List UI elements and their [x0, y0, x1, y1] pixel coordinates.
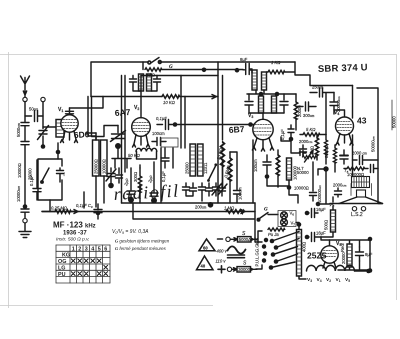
svg-text:43: 43 — [357, 116, 367, 126]
svg-text:400 v: 400 v — [217, 249, 228, 254]
band table — [56, 245, 110, 283]
warning triangle 1 — [199, 239, 215, 251]
capacitor 50cm — [25, 107, 43, 122]
switch G on bus — [148, 58, 173, 71]
antenna terminal A2 — [41, 97, 45, 101]
svg-text:5000cm: 5000cm — [16, 123, 21, 137]
switch S to lamps — [257, 208, 278, 222]
svg-text:P.U.: P.U. — [255, 259, 260, 267]
IF2 capacitor right — [249, 94, 288, 113]
IF2 capacitor left — [245, 94, 253, 113]
smoothing choke — [324, 205, 336, 233]
dial lamps box — [278, 211, 296, 227]
paper edge lines — [0, 52, 397, 308]
resistor 0.25Meg — [42, 206, 78, 214]
padder capacitor f — [57, 168, 64, 182]
screen sub-bus — [162, 69, 243, 71]
svg-text:400Ω: 400Ω — [302, 242, 307, 252]
svg-text:50 KΩ: 50 KΩ — [128, 153, 141, 158]
svg-text:10000Ω: 10000Ω — [294, 186, 309, 191]
capacitor 10000cm V4 cathode — [333, 183, 347, 198]
svg-text:G.G.: G.G. — [255, 243, 260, 252]
node dot — [41, 144, 46, 149]
anode cap 0.1uF — [280, 125, 294, 141]
IF transformer T2 primary — [252, 70, 257, 90]
capacitor 2000cm — [299, 139, 313, 156]
svg-text:110 v: 110 v — [216, 259, 227, 264]
resistor 30ohm — [268, 228, 285, 237]
junction dot — [202, 68, 207, 73]
capacitor 250cm — [310, 85, 334, 98]
IF2 coil left — [259, 96, 264, 113]
svg-text:25000Ω: 25000Ω — [93, 159, 98, 174]
wire to ground symbol — [24, 223, 26, 231]
svg-text:5: 5 — [98, 246, 101, 252]
tube V3 6B7 — [252, 113, 273, 151]
bottom trimmer row 2 — [199, 183, 213, 201]
svg-text:radiofil: radiofil — [113, 181, 180, 204]
svg-text:30000: 30000 — [238, 267, 250, 272]
svg-text:2000 cm: 2000 cm — [352, 151, 367, 156]
resistor 1 Meg — [224, 206, 245, 214]
label 200cm — [195, 202, 213, 210]
trimmer capacitor antenna — [38, 102, 49, 145]
speaker cone — [339, 197, 383, 204]
svg-text:SBR 374 U: SBR 374 U — [318, 62, 368, 75]
svg-text:10 KΩ: 10 KΩ — [163, 100, 176, 105]
IF1 primary coil — [139, 74, 144, 91]
svg-text:8µF: 8µF — [240, 57, 248, 62]
svg-text:5 KΩ: 5 KΩ — [306, 127, 316, 132]
svg-text:6: 6 — [104, 246, 107, 252]
svg-text:8µF: 8µF — [365, 252, 373, 257]
padder line 0.1uF — [161, 148, 166, 203]
osc resistor 10k vertical — [216, 142, 225, 188]
bus AVC line — [42, 211, 255, 213]
svg-text:Redr: Redr — [340, 242, 345, 252]
wire antenna down — [24, 102, 26, 141]
capacitor 20000cm vertical — [330, 93, 341, 115]
resistor 1k ohm — [267, 60, 353, 86]
svg-text:300Ω: 300Ω — [133, 172, 138, 182]
capacitor 5000cm — [16, 123, 29, 145]
svg-text:10000Ω: 10000Ω — [101, 159, 106, 174]
AVC feed wires — [325, 93, 327, 135]
V4 grid resistor — [316, 135, 330, 207]
series capacitor 2uF — [29, 160, 41, 200]
IF2 tuned circuits top line — [247, 90, 296, 94]
svg-text:100cm: 100cm — [152, 131, 165, 136]
top HT bus — [91, 62, 295, 97]
resistor 3k ohm — [143, 62, 162, 78]
lamp V6 — [281, 212, 288, 219]
electrolytic 16uF b — [305, 231, 326, 242]
HT vertical right — [352, 86, 354, 177]
resistor 10k ohm — [162, 95, 180, 105]
svg-text:4: 4 — [91, 246, 94, 252]
svg-text:16µF: 16µF — [316, 231, 326, 236]
AVC line vertical — [230, 152, 243, 203]
bus gnd line — [122, 202, 256, 204]
junction dot — [235, 68, 240, 73]
svg-text:L.S.2: L.S.2 — [351, 212, 363, 218]
svg-text:100000: 100000 — [293, 165, 298, 180]
svg-text:10000Ω: 10000Ω — [17, 163, 22, 178]
trimmer pair — [106, 168, 123, 188]
switch contact — [42, 168, 49, 181]
IF1 tuning capacitor right — [152, 76, 161, 92]
diode load 100cm — [253, 155, 271, 179]
inner line below switch — [141, 75, 218, 77]
svg-text:1 KΩ: 1 KΩ — [271, 60, 281, 65]
electrolytic 2uF b — [147, 162, 158, 204]
resistor 0.25M vertical — [276, 150, 279, 187]
grid capacitor V2 with trimmer arrow — [111, 126, 126, 150]
node dot antenna-gnd — [23, 204, 28, 209]
grid stopper wires — [281, 137, 291, 141]
svg-text:12311: 12311 — [203, 162, 208, 174]
IF2 coil right — [272, 96, 277, 113]
svg-text:G gesloten tijdens metingen: G gesloten tijdens metingen — [115, 239, 170, 244]
power wiring — [321, 237, 370, 270]
speaker field wires — [321, 197, 333, 237]
svg-text:Instr. 500 Ω p.v.: Instr. 500 Ω p.v. — [56, 237, 90, 243]
wave switch box left — [38, 159, 66, 200]
IF2 junction dots — [259, 92, 264, 97]
svg-text:V0/V9 = 9V. 0,3A: V0/V9 = 9V. 0,3A — [112, 229, 149, 235]
svg-text:100cm: 100cm — [253, 159, 258, 172]
svg-text:100000cm: 100000cm — [317, 185, 322, 203]
coupling capacitor 0.1uF — [156, 116, 177, 130]
wire box to bus — [49, 200, 51, 212]
ground — [19, 232, 31, 238]
mains terminal minus — [218, 237, 231, 241]
fuse S top — [231, 231, 258, 242]
V1 top cap wire to screen bus — [70, 97, 104, 109]
svg-text:0.1µF: 0.1µF — [29, 175, 34, 186]
rotary wave switch — [255, 232, 300, 270]
svg-text:G fermé pendant mésures: G fermé pendant mésures — [115, 246, 167, 251]
tube V4 43 — [334, 110, 354, 145]
svg-text:50cm: 50cm — [29, 107, 38, 112]
svg-text:16µF: 16µF — [316, 207, 326, 212]
svg-text:5000Δ: 5000Δ — [239, 237, 251, 242]
svg-text:L.G.: L.G. — [255, 251, 260, 259]
capacitor 300cm — [296, 102, 316, 118]
cathode bypass electrolytic — [340, 150, 348, 164]
resistor 0.5 Meg — [223, 152, 232, 203]
outer right vertical — [357, 88, 383, 204]
padding caps pair — [161, 138, 178, 168]
speaker base feed — [330, 203, 339, 205]
resistor 1 Meg det — [310, 135, 319, 161]
node 10000 — [267, 179, 309, 191]
cathode resistor 300ohm — [133, 165, 142, 203]
antenna terminal A1 — [23, 97, 27, 101]
node dot V3 grid — [248, 122, 253, 127]
svg-text:50000cm: 50000cm — [371, 136, 376, 152]
electrolytic 8uF — [240, 57, 252, 75]
svg-text:25000: 25000 — [185, 162, 190, 174]
svg-text:KG: KG — [62, 253, 70, 259]
svg-text:LG: LG — [58, 266, 66, 272]
AC source symbol — [228, 246, 246, 257]
volume pot 50000 — [291, 141, 316, 175]
svg-text:20000: 20000 — [341, 252, 346, 264]
wire from fuses to switch — [256, 231, 262, 269]
tone resistor 100000 — [344, 165, 378, 178]
warning triangle 2 — [197, 256, 214, 270]
bypass capacitor 0.1uF C — [76, 192, 102, 219]
IF1 secondary coil — [147, 74, 152, 91]
tube V5 25Z5 — [321, 240, 338, 268]
AF line to 6B7 — [177, 124, 253, 126]
svg-text:6A7: 6A7 — [114, 107, 131, 118]
svg-text:100cm: 100cm — [238, 187, 243, 200]
screen resistor 20k — [294, 94, 302, 130]
tube V1 6D6 — [61, 108, 79, 143]
lamp V7 — [281, 219, 288, 226]
IF1 tuning capacitor left — [130, 76, 142, 92]
bottom trimmer row 1 — [183, 183, 197, 196]
oscillator coil bar 2 — [198, 144, 208, 176]
fuse S bottom — [232, 261, 257, 273]
screen feed wires to cathode bars — [88, 97, 118, 141]
capacitor 10000cm — [16, 186, 29, 213]
ballast resistor 400ohm — [296, 222, 307, 279]
grid coil L1 — [56, 120, 64, 138]
capacitor 100cm — [152, 131, 166, 146]
antenna — [21, 76, 30, 97]
svg-text:2: 2 — [78, 246, 81, 252]
wire grid V1 — [43, 126, 56, 128]
long vertical pair mid — [218, 62, 223, 188]
svg-text:60: 60 — [203, 246, 208, 251]
vertical pair to osc — [181, 76, 185, 149]
voice coil bracket — [351, 184, 372, 198]
screen bus with 10k resistor — [91, 96, 162, 98]
bottom trimmer row 3 with arrows — [212, 183, 227, 196]
IF transformer T2 secondary — [249, 70, 266, 90]
svg-text:40: 40 — [201, 264, 206, 269]
output transformer — [352, 177, 370, 188]
electrolytic 2uF — [123, 168, 135, 203]
earth terminal — [23, 219, 27, 223]
det bottom wire — [253, 140, 298, 203]
svg-text:1936 -37: 1936 -37 — [63, 231, 87, 237]
tube V2 6A7 — [132, 76, 151, 148]
electrolytic 8uF out — [356, 247, 373, 261]
trimmer hang line — [112, 148, 131, 168]
oscillator coupling coil 50000 — [128, 148, 157, 159]
filter resistor 20000 — [341, 244, 352, 267]
svg-text:6B7: 6B7 — [228, 124, 245, 135]
cathode node V1 — [57, 143, 59, 150]
far right resistor — [392, 100, 397, 130]
capacitor 2000cm out — [352, 151, 378, 165]
svg-text:1 MΩ: 1 MΩ — [224, 206, 235, 211]
table X marks — [71, 259, 107, 276]
electrolytic 16uF a — [305, 207, 326, 218]
svg-text:200cm: 200cm — [195, 205, 207, 210]
wire top of bars — [86, 132, 96, 134]
oscillator coil bar 1 — [185, 144, 196, 176]
svg-text:2000cm: 2000cm — [299, 139, 313, 144]
svg-text:PU: PU — [58, 272, 66, 278]
bottom box line — [133, 160, 255, 238]
heater labels — [307, 277, 350, 283]
svg-text:50000: 50000 — [392, 116, 397, 128]
svg-text:300cm: 300cm — [303, 113, 315, 118]
mains terminal plus — [218, 266, 232, 273]
speaker terminals L.S. — [351, 207, 366, 219]
cathode resistor bar 25000 — [93, 133, 100, 207]
capacitor 100000cm — [310, 162, 323, 203]
V4 cathode resistor — [324, 145, 337, 172]
svg-text:Pu Ja: Pu Ja — [268, 232, 279, 237]
svg-text:500Ω: 500Ω — [324, 220, 329, 230]
heater chain coils — [307, 265, 371, 273]
svg-text:OG: OG — [58, 259, 66, 265]
node dot b- — [368, 268, 373, 273]
coil bar det — [287, 158, 298, 180]
svg-text:G: G — [264, 208, 268, 213]
node dot b+ — [368, 237, 373, 242]
svg-text:3: 3 — [85, 246, 88, 252]
svg-text:10000cm: 10000cm — [16, 186, 21, 202]
long vertical pair left — [122, 76, 126, 204]
cathode resistor bar 10000 — [101, 140, 108, 203]
resistor 5k — [300, 127, 326, 136]
wire to ground bus — [24, 145, 26, 205]
osc band switch — [207, 163, 217, 182]
svg-text:2000cm: 2000cm — [333, 183, 347, 188]
wire to earth terminal — [24, 212, 26, 218]
svg-text:25Z5: 25Z5 — [307, 251, 327, 261]
svg-text:1: 1 — [72, 246, 75, 252]
